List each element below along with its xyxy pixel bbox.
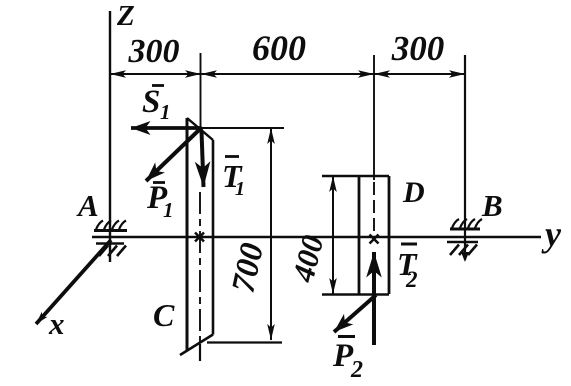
svg-text:1: 1 (160, 100, 171, 124)
label P1 (146, 180, 174, 222)
svg-text:2: 2 (350, 357, 363, 383)
pulley C (180, 118, 213, 355)
svg-text:1: 1 (235, 178, 245, 200)
force S1 (131, 126, 199, 130)
svg-text:B: B (481, 188, 503, 223)
svg-text:y: y (541, 214, 562, 254)
svg-text:S: S (142, 84, 160, 120)
label P2 (332, 337, 363, 384)
support B (447, 55, 482, 262)
z axis (109, 11, 111, 262)
svg-text:A: A (76, 188, 99, 223)
x axis (36, 240, 111, 324)
force P2 (334, 295, 376, 332)
svg-text:2: 2 (405, 267, 418, 292)
svg-text:x: x (48, 306, 65, 341)
svg-text:Z: Z (116, 0, 135, 32)
node junction at pulley C top (197, 126, 203, 132)
support A (94, 221, 127, 257)
svg-text:1: 1 (163, 198, 174, 222)
label T2 (397, 244, 418, 292)
node x-mark D (370, 235, 379, 244)
node x-mark C (195, 233, 204, 242)
svg-text:C: C (153, 297, 175, 333)
pulley D (322, 176, 389, 295)
force T2 (372, 252, 376, 345)
force T1 (202, 131, 204, 187)
svg-text:300: 300 (128, 33, 180, 70)
svg-text:600: 600 (252, 28, 306, 68)
svg-text:700: 700 (225, 240, 271, 296)
dimension 700 (201, 128, 284, 343)
label T1 (222, 157, 245, 201)
dimension 400 (332, 176, 334, 294)
pulley D centerline (373, 55, 375, 180)
label S1 (142, 84, 171, 124)
force P1 (146, 129, 200, 181)
svg-text:300: 300 (391, 29, 445, 68)
pulley C centerline (200, 53, 202, 128)
y axis (92, 236, 541, 239)
svg-text:400: 400 (285, 232, 330, 287)
dimension line 300-600-300 (110, 73, 465, 75)
svg-text:D: D (402, 176, 425, 209)
